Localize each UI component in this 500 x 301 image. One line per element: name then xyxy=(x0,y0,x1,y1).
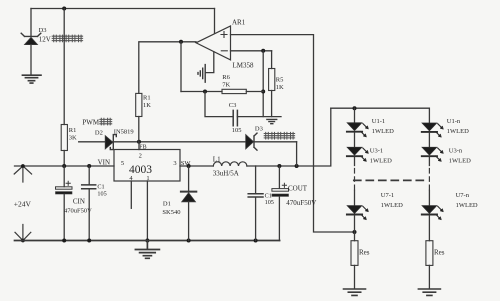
dashed link between strings xyxy=(354,179,429,181)
node CIN bottom xyxy=(62,239,66,243)
svg-text:R1: R1 xyxy=(69,127,77,134)
svg-text:AR1: AR1 xyxy=(232,19,246,27)
node D3 zener branch xyxy=(295,164,299,168)
wire LED top rail xyxy=(331,108,430,122)
capacitor C1 output plates xyxy=(248,194,263,197)
resistor R5 body xyxy=(269,69,275,91)
diode D2 triangle xyxy=(105,136,113,149)
wire FB pin2 stub xyxy=(138,142,140,150)
terminal arrow +24V top xyxy=(14,166,31,182)
wire top supply rail xyxy=(31,8,215,10)
wire C3 left lead xyxy=(205,92,233,117)
node pin1 ground xyxy=(145,239,149,243)
wire R5 bottom lead xyxy=(271,91,273,117)
wire C1out bottom lead xyxy=(255,198,257,241)
svg-text:Res: Res xyxy=(434,248,445,256)
wire R1 1K top to op-amp output xyxy=(139,42,196,94)
wire PWM / FB horizontal xyxy=(79,141,297,143)
svg-text:U3-n: U3-n xyxy=(449,148,463,155)
ground string1 xyxy=(344,289,366,295)
IC 4003 box xyxy=(114,150,180,182)
inductor L1 coils xyxy=(213,162,247,166)
wire SW to L1 xyxy=(180,165,213,167)
diode D1 triangle xyxy=(182,193,196,202)
capacitor COUT plus plate xyxy=(272,189,289,192)
LED U3-n xyxy=(422,147,443,161)
wire D1 bottom lead xyxy=(188,202,190,241)
svg-text:7K: 7K xyxy=(222,81,230,88)
svg-text:105: 105 xyxy=(97,191,106,198)
svg-text:105: 105 xyxy=(265,199,274,206)
svg-text:U1-1: U1-1 xyxy=(372,118,385,125)
svg-text:R1: R1 xyxy=(143,94,151,101)
svg-text:1WLED: 1WLED xyxy=(370,158,392,165)
CIN plus sign xyxy=(66,181,70,185)
resistor R6 body xyxy=(222,89,246,93)
svg-text:L1: L1 xyxy=(213,155,221,163)
node D1 bottom xyxy=(187,239,191,243)
svg-text:3K: 3K xyxy=(69,135,77,142)
zener D3 second triangle xyxy=(246,135,254,149)
wire R1 1K bottom lead xyxy=(138,117,140,142)
node C1out bottom xyxy=(254,239,258,243)
svg-text:12V: 12V xyxy=(39,36,51,44)
zener D3 cathode bar xyxy=(21,33,41,36)
capacitor C1 plates xyxy=(82,185,96,189)
svg-text:470uF50V: 470uF50V xyxy=(286,199,316,207)
wire string2 above U7-n xyxy=(428,190,430,205)
wire R6 right lead xyxy=(246,91,263,93)
wire string1 above U7-1 xyxy=(354,190,356,205)
node VIN rail C1 xyxy=(87,164,91,168)
wire C1 top lead xyxy=(88,166,90,184)
wire minus branch vertical xyxy=(262,51,264,117)
svg-text:IN5819: IN5819 xyxy=(114,128,134,135)
svg-text:5: 5 xyxy=(121,160,124,167)
wire CIN top lead xyxy=(63,166,65,187)
wire op-amp plus input to sense line xyxy=(231,35,355,232)
wire C1 bottom lead xyxy=(88,190,90,241)
svg-text:D2: D2 xyxy=(95,129,103,136)
wire op-amp V- to side ground xyxy=(206,52,214,73)
ground below D3 xyxy=(22,75,41,83)
capacitor C3 plates xyxy=(233,110,237,125)
node R6 left / C3 branch xyxy=(203,90,207,94)
svg-text:D3: D3 xyxy=(255,126,263,133)
wire op-amp minus input xyxy=(231,50,272,52)
svg-text:U7-1: U7-1 xyxy=(381,192,394,199)
svg-text:C3: C3 xyxy=(229,102,237,109)
capacitor CIN bottom plate xyxy=(56,192,73,194)
svg-text:R6: R6 xyxy=(222,74,230,81)
wire output rail after L1 xyxy=(247,108,331,166)
svg-text:1WLED: 1WLED xyxy=(456,202,478,209)
wire D3 zener branch xyxy=(296,142,298,166)
capacitor CIN plus plate xyxy=(56,187,73,189)
terminal arrow bottom xyxy=(15,225,31,241)
wire R1 3K to VIN rail xyxy=(63,151,65,167)
ground string2 xyxy=(418,289,440,295)
svg-text:105: 105 xyxy=(232,127,242,134)
ground main below rail xyxy=(135,241,159,259)
wire string2 dashed xyxy=(428,169,430,191)
svg-text:U1-n: U1-n xyxy=(447,118,461,125)
diode D2 cathode bar xyxy=(110,135,116,150)
wire Res1 to ground xyxy=(354,265,356,288)
wire string1 below U3-1 xyxy=(354,157,356,165)
svg-text:1K: 1K xyxy=(276,84,284,91)
svg-text:2: 2 xyxy=(139,153,142,160)
ground below R5 xyxy=(267,119,277,123)
wire string2 between LEDs xyxy=(428,133,430,147)
node COUT top xyxy=(277,164,281,168)
svg-text:U3-1: U3-1 xyxy=(370,148,383,155)
svg-text:33uH/5A: 33uH/5A xyxy=(213,170,239,178)
wire VIN rail xyxy=(15,165,115,167)
wire COUT top lead xyxy=(278,166,280,188)
wire R5 top lead xyxy=(271,51,273,69)
node top rail / R1 branch xyxy=(62,7,66,11)
node FB junction xyxy=(137,140,141,144)
svg-text:SK540: SK540 xyxy=(162,209,180,216)
svg-text:470uF50V: 470uF50V xyxy=(64,208,92,215)
wire D1 top lead xyxy=(188,166,190,191)
resistor R1 3K body xyxy=(61,125,67,151)
wire string1 dashed xyxy=(354,169,356,191)
LED U3-1 xyxy=(347,147,368,161)
wire string2 to Res xyxy=(428,216,430,241)
svg-text:U7-n: U7-n xyxy=(456,192,470,199)
LED U7-n xyxy=(422,206,443,220)
svg-text:R5: R5 xyxy=(276,76,284,83)
resistor Res string1 body xyxy=(351,241,358,266)
node C1 bottom xyxy=(87,239,91,243)
label 12V regulation diode xyxy=(39,36,51,44)
LED U1-1 xyxy=(347,123,368,137)
svg-text:VIN: VIN xyxy=(98,158,110,166)
svg-text:LM358: LM358 xyxy=(233,62,255,70)
node minus input branch xyxy=(261,49,265,53)
wire Res2 to ground xyxy=(428,265,430,288)
svg-text:Res: Res xyxy=(359,248,370,256)
wire string1 between LEDs xyxy=(354,133,356,147)
resistor Res string2 body xyxy=(426,241,433,266)
zener D3 triangle xyxy=(25,37,38,44)
wire R1 3K vertical from top rail xyxy=(63,9,65,125)
wire pin1 to ground rail xyxy=(146,181,148,241)
svg-text:+24V: +24V xyxy=(14,200,32,209)
wire CIN bottom lead xyxy=(63,194,65,240)
svg-text:COUT: COUT xyxy=(288,184,308,192)
op-amp plus sign xyxy=(221,32,227,38)
svg-text:CIN: CIN xyxy=(73,198,85,206)
node R6 right xyxy=(261,90,265,94)
wire string1 top segment xyxy=(354,108,356,122)
wire R6 left lead xyxy=(181,91,222,93)
op-amp minus sign xyxy=(221,50,227,52)
label regulation diode second xyxy=(264,132,294,139)
wire string1 to Res xyxy=(354,216,356,241)
capacitor COUT bottom plate xyxy=(272,194,289,196)
svg-text:3: 3 xyxy=(173,160,176,167)
LED U7-1 xyxy=(347,206,368,220)
wire C3 right to ground xyxy=(237,116,281,118)
wire bottom ground rail xyxy=(15,240,280,242)
svg-text:1K: 1K xyxy=(143,102,151,109)
node sense at LED string xyxy=(353,230,357,234)
svg-text:PWM: PWM xyxy=(82,119,100,127)
resistor R1 1K body xyxy=(136,93,142,116)
node SW D1 branch xyxy=(187,164,191,168)
diode D1 cathode bar xyxy=(181,191,196,193)
wire C1out top lead xyxy=(255,166,257,193)
node op-amp output branch xyxy=(179,40,183,44)
zener D3 second bar xyxy=(254,133,257,150)
wire zener D3 top lead xyxy=(30,9,32,36)
svg-text:D3: D3 xyxy=(39,27,47,34)
svg-text:C1: C1 xyxy=(97,183,104,190)
svg-text:1WLED: 1WLED xyxy=(372,128,394,135)
node LED string1 top xyxy=(353,106,357,110)
svg-text:1WLED: 1WLED xyxy=(449,158,471,165)
wire string2 below U3-n xyxy=(428,157,430,165)
wire feedback branch down xyxy=(180,42,182,92)
wire op-amp V+ from top rail xyxy=(214,9,216,34)
svg-text:1WLED: 1WLED xyxy=(381,202,403,209)
node VIN rail CIN xyxy=(62,164,66,168)
op-amp AR1 triangle xyxy=(196,26,231,60)
LED U1-n xyxy=(422,123,443,137)
svg-text:1WLED: 1WLED xyxy=(447,128,469,135)
COUT plus sign xyxy=(282,183,286,187)
wire COUT bottom lead xyxy=(278,197,280,241)
svg-text:D1: D1 xyxy=(163,200,171,207)
side ground bars xyxy=(198,65,205,83)
wire D3 anode to ground xyxy=(30,45,32,75)
wire pin4 stub xyxy=(130,181,132,208)
